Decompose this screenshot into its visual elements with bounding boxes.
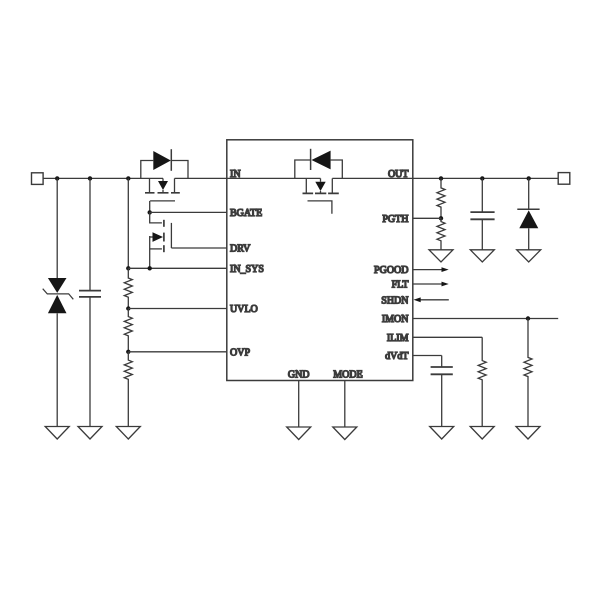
resistor R7 ILIM: [478, 337, 486, 426]
node OUT/diode junction: [527, 176, 531, 180]
ground R6: [516, 427, 540, 440]
node input/cap junction: [88, 176, 92, 180]
node UVLO tap: [126, 306, 130, 310]
ground D2: [517, 250, 541, 262]
output terminal: [558, 173, 570, 185]
svg-text:MODE: MODE: [333, 369, 362, 380]
body diode of internal FET: [295, 149, 343, 179]
svg-text:ILIM: ILIM: [387, 333, 409, 344]
node IN_SYS divider top: [126, 266, 130, 270]
ground MODE pin: [333, 427, 357, 440]
ground divider: [116, 427, 140, 440]
resistor R1 divider top: [124, 268, 132, 308]
svg-text:PGTH: PGTH: [382, 214, 408, 225]
node Q2 source junction: [148, 266, 152, 270]
capacitor C2 output: [470, 178, 494, 249]
svg-text:SHDN: SHDN: [381, 295, 408, 306]
node input/divider junction: [126, 176, 130, 180]
wire MODE pin: [344, 381, 346, 428]
wire GND pin: [298, 381, 300, 428]
wire IN_SYS: [128, 267, 227, 269]
svg-text:PGOOD: PGOOD: [374, 265, 408, 276]
resistor R2 divider middle: [124, 309, 132, 352]
wire ILIM: [413, 336, 482, 338]
wire input rail left segment: [43, 177, 163, 179]
resistor R6 IMON: [524, 319, 532, 427]
resistor R3 divider bottom: [124, 352, 132, 427]
transistor Q1 external PFET: [145, 178, 180, 212]
svg-text:OUT: OUT: [388, 169, 409, 180]
svg-text:GND: GND: [288, 369, 310, 380]
TVS diode D1 bidirectional: [43, 178, 74, 426]
wire FLT with arrow: [413, 282, 449, 287]
svg-text:IN_SYS: IN_SYS: [230, 264, 264, 275]
node OVP tap: [126, 350, 130, 354]
svg-text:IN: IN: [230, 169, 241, 180]
node input/TVS junction: [55, 176, 59, 180]
ground C3: [430, 427, 454, 440]
wire SHDN with arrow: [414, 297, 449, 302]
wire OVP: [128, 351, 227, 353]
transistor Q2 small NFET: [150, 212, 172, 268]
svg-text:DRV: DRV: [230, 244, 251, 255]
node PGTH tap: [439, 216, 443, 220]
ground C1: [78, 427, 102, 440]
zener diode D2 output: [517, 178, 539, 249]
wire PGOOD with arrow: [413, 267, 449, 272]
wire DRV: [171, 247, 226, 249]
node OUT/divider junction: [439, 176, 443, 180]
svg-text:BGATE: BGATE: [230, 208, 262, 219]
wire output rail segment: [332, 177, 558, 179]
svg-text:dVdT: dVdT: [385, 351, 408, 362]
svg-text:FLT: FLT: [392, 280, 409, 291]
body diode of Q1: [141, 149, 188, 178]
ground TVS: [45, 427, 69, 440]
input terminal: [32, 173, 44, 185]
ground PGTH divider: [429, 250, 453, 262]
capacitor C1 input: [79, 178, 101, 426]
ground GND pin: [287, 427, 311, 440]
wire rail to IN_SYS divider: [127, 178, 129, 268]
wire IMON: [413, 318, 558, 320]
resistor R4 PGTH top: [437, 178, 445, 218]
wire UVLO: [128, 308, 227, 310]
svg-text:UVLO: UVLO: [230, 304, 258, 315]
wire PGTH: [413, 217, 441, 219]
wire dVdT: [413, 355, 442, 357]
resistor R5 PGTH bottom: [437, 218, 445, 250]
svg-text:IMON: IMON: [382, 314, 409, 325]
transistor internal FET: [303, 178, 339, 213]
wire input rail right segment into IC: [175, 177, 321, 179]
node IMON junction: [526, 316, 530, 320]
IC U1 body: [227, 140, 413, 381]
node BGATE junction: [148, 210, 152, 214]
wire BGATE: [150, 211, 227, 213]
capacitor C3 dVdT: [431, 356, 453, 427]
ground R7: [470, 427, 494, 440]
svg-text:OVP: OVP: [230, 347, 250, 358]
node OUT/cap junction: [480, 176, 484, 180]
ground C2: [470, 250, 494, 262]
